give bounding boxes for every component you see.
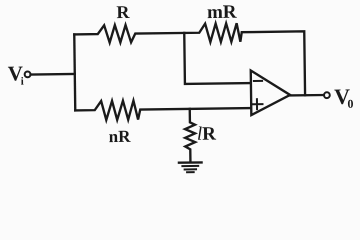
svg-text:R: R	[116, 2, 130, 22]
svg-text:i: i	[21, 76, 24, 88]
svg-text:0: 0	[347, 97, 353, 111]
svg-text:nR: nR	[109, 127, 132, 146]
svg-text:mR: mR	[207, 2, 237, 23]
svg-text:lR: lR	[197, 124, 217, 145]
